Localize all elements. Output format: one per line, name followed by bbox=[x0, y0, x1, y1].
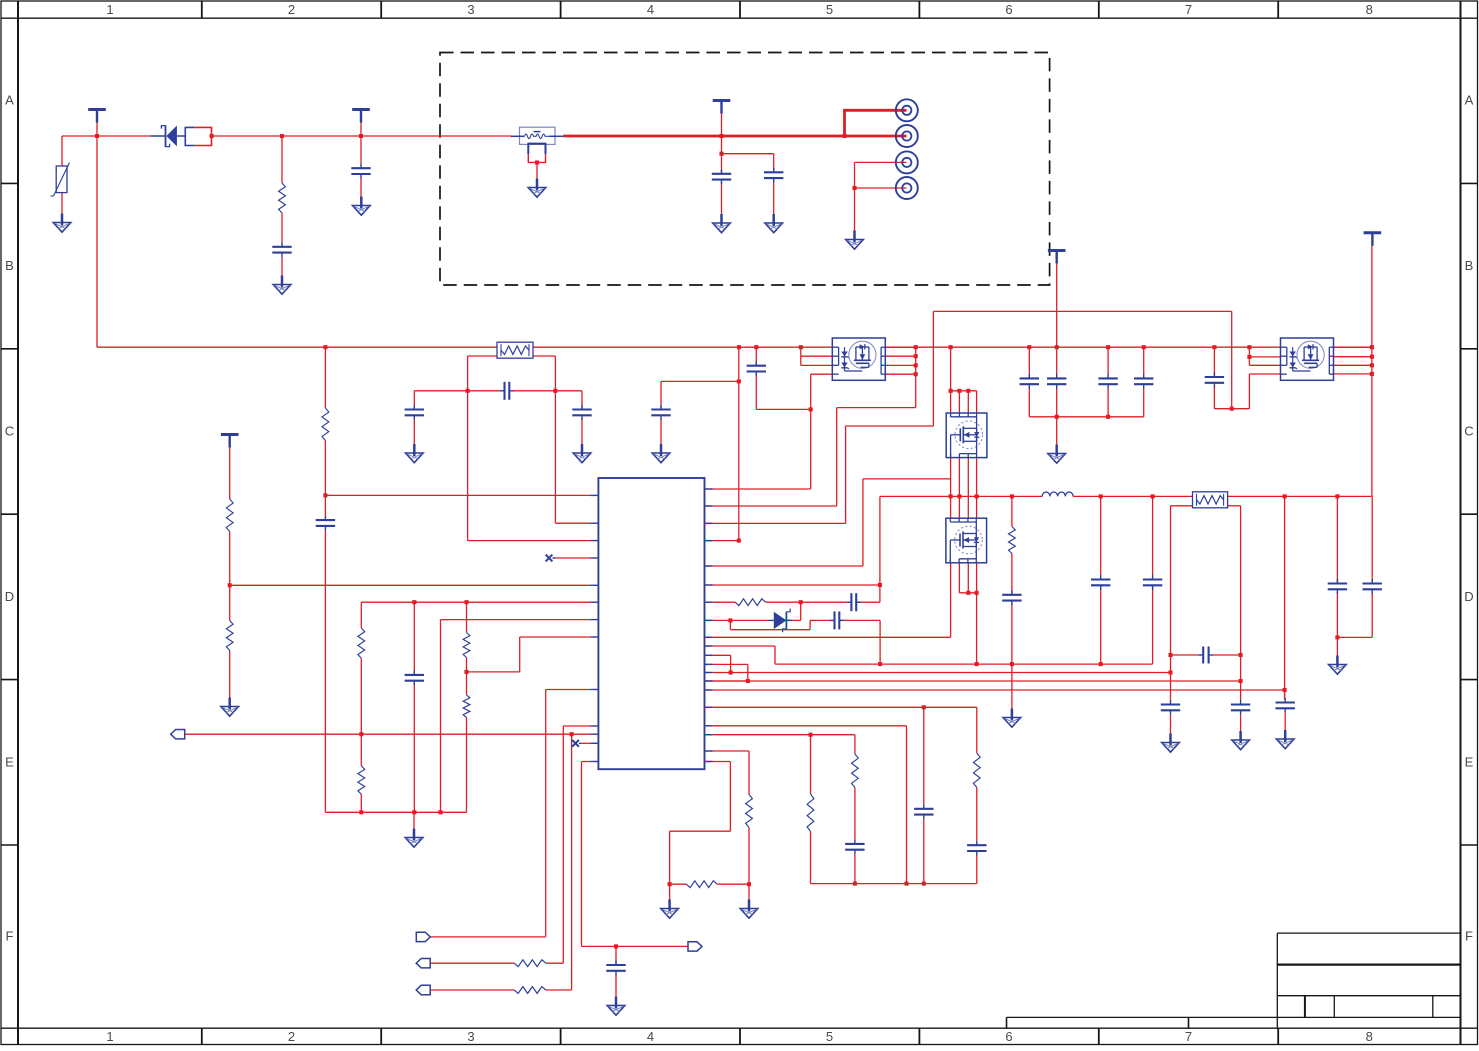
svg-text:2: 2 bbox=[288, 2, 295, 17]
svg-text:4: 4 bbox=[647, 2, 654, 17]
svg-text:E: E bbox=[1465, 755, 1474, 770]
svg-text:1: 1 bbox=[106, 2, 113, 17]
svg-text:A: A bbox=[1465, 93, 1474, 108]
svg-text:E: E bbox=[5, 755, 14, 770]
svg-text:F: F bbox=[6, 929, 14, 944]
svg-text:7: 7 bbox=[1185, 2, 1192, 17]
svg-text:B: B bbox=[1465, 258, 1474, 273]
svg-text:5: 5 bbox=[826, 2, 833, 17]
svg-text:B: B bbox=[5, 258, 14, 273]
svg-text:1: 1 bbox=[106, 1029, 113, 1044]
svg-text:C: C bbox=[1464, 424, 1473, 439]
svg-text:C: C bbox=[5, 424, 14, 439]
svg-text:8: 8 bbox=[1366, 2, 1373, 17]
svg-text:8: 8 bbox=[1366, 1029, 1373, 1044]
svg-text:F: F bbox=[1465, 929, 1473, 944]
svg-text:D: D bbox=[1464, 589, 1473, 604]
svg-text:5: 5 bbox=[826, 1029, 833, 1044]
svg-text:6: 6 bbox=[1005, 1029, 1012, 1044]
svg-text:7: 7 bbox=[1185, 1029, 1192, 1044]
svg-text:6: 6 bbox=[1005, 2, 1012, 17]
svg-text:2: 2 bbox=[288, 1029, 295, 1044]
svg-text:A: A bbox=[5, 93, 14, 108]
svg-text:D: D bbox=[5, 589, 14, 604]
svg-text:3: 3 bbox=[467, 2, 474, 17]
svg-text:3: 3 bbox=[467, 1029, 474, 1044]
svg-text:4: 4 bbox=[647, 1029, 654, 1044]
